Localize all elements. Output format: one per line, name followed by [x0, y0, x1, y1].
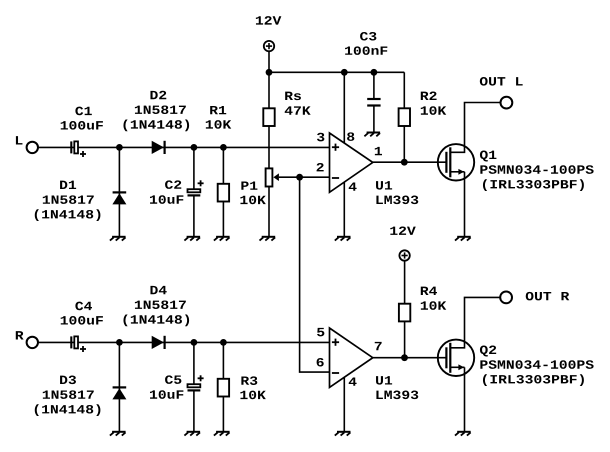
node 12V rail / Rs [266, 69, 273, 76]
pin label 2 [317, 163, 324, 171]
resistor R3 [218, 342, 229, 431]
op-amp U1b triangle [330, 328, 373, 387]
label R3 10K [240, 376, 265, 399]
pin label 5 [317, 328, 324, 336]
capacitor C4 [71, 336, 86, 352]
node R3 [220, 339, 227, 346]
terminal OUT L [501, 97, 513, 109]
mosfet Q2 source [450, 364, 464, 431]
pin label 3 [317, 133, 324, 142]
power symbol +12V (left channel) [264, 41, 274, 72]
resistor Rs [263, 72, 274, 168]
potentiometer P1 body [266, 168, 273, 236]
pin label 1 [375, 147, 382, 155]
wire 12V rail [269, 71, 404, 73]
ground P1 [260, 237, 276, 241]
resistor R1 [218, 147, 229, 236]
op-amp U1a pin 4 lead [343, 182, 345, 237]
label OUT R [526, 292, 570, 301]
label C2 10uF [150, 180, 183, 203]
label D4 1N5817 (1N4148) [123, 286, 189, 326]
ground C3 [364, 133, 380, 137]
mosfet Q1 body circle [438, 144, 474, 180]
label R input [16, 331, 24, 339]
label D2 1N5817 (1N4148) [123, 91, 189, 131]
node input/D1 [116, 144, 123, 151]
node output / R4 / gate [401, 354, 408, 361]
mosfet Q1 gate bar [445, 152, 447, 173]
op-amp U1a minus mark [332, 177, 339, 179]
ground D3 [110, 432, 126, 436]
label D3 1N5817 (1N4148) [35, 376, 101, 416]
mosfet Q2 drain [450, 297, 500, 347]
wire U1a output to gate [373, 161, 447, 163]
pin label 4 (U1b) [349, 377, 357, 385]
ground C2 [184, 237, 200, 241]
label L input [16, 136, 23, 144]
mosfet Q2 channel bar [449, 343, 451, 373]
ground Q1 source [455, 237, 471, 241]
resistor R4 [399, 304, 410, 358]
label U1 LM393 (bottom) [376, 376, 418, 399]
node R1 [220, 144, 227, 151]
ground R3 [214, 432, 230, 436]
label D1 1N5817 (1N4148) [35, 181, 101, 221]
power symbol +12V (right channel) [399, 250, 409, 303]
potentiometer P1 wiper arrow [273, 173, 279, 181]
label R4 10K [421, 287, 446, 310]
diode D4 (series) [152, 336, 165, 349]
op-amp U1b pin 4 lead [343, 377, 345, 432]
op-amp U1a triangle [330, 133, 373, 192]
label 12V supply (left channel) [256, 16, 281, 24]
ground Q2 source [455, 432, 471, 436]
node 12V rail / C3 [371, 69, 378, 76]
pin label 8 [347, 132, 354, 141]
label Rs 47K [285, 92, 311, 115]
resistor R2 [399, 72, 410, 162]
node wiper net [296, 174, 303, 181]
label Q2 PSMN034-100PS (IRL3303PBF) [480, 346, 594, 386]
terminal input L [27, 142, 38, 153]
pin label 4 (U1a) [349, 182, 357, 190]
mosfet Q1 source [450, 169, 464, 237]
capacitor C1 [71, 141, 86, 157]
diode D2 (series) [152, 141, 165, 154]
wire input L row [38, 146, 330, 148]
pin label 6 [317, 358, 324, 367]
ground U1a pin 4 [335, 237, 351, 241]
capacitor C2 [188, 147, 204, 236]
node output / R2 / gate [401, 159, 408, 166]
capacitor C3 [367, 72, 380, 132]
mosfet Q2 gate bar [445, 347, 447, 368]
diode D3 (clamp) [112, 342, 126, 431]
capacitor C5 [188, 342, 204, 431]
label OUT L [480, 77, 523, 86]
wire input R row [38, 341, 330, 343]
node C2 [191, 144, 198, 151]
wire wiper to pin 2 [279, 176, 330, 178]
op-amp U1a plus mark [332, 144, 339, 151]
wire wiper net down to pin 6 [300, 177, 330, 372]
ground D1 [110, 237, 126, 241]
mosfet Q1 channel bar [449, 147, 451, 177]
op-amp U1b plus mark [332, 339, 339, 346]
label C3 100nF [345, 32, 387, 55]
ground U1b pin 4 [335, 432, 351, 436]
label U1 LM393 (top) [376, 181, 418, 204]
mosfet Q1 drain [450, 103, 500, 153]
terminal OUT R [500, 292, 512, 304]
node input/D3 [116, 339, 123, 346]
op-amp U1b minus mark [332, 372, 339, 374]
diode D1 (clamp) [112, 147, 126, 236]
terminal input R [27, 337, 38, 348]
pin label 7 [375, 342, 382, 350]
label P1 10K [240, 181, 265, 204]
op-amp U1a pin 8 lead [343, 72, 345, 143]
node C5 [191, 339, 198, 346]
ground R1 [214, 237, 230, 241]
label C1 100uF [61, 107, 103, 130]
label 12V supply (right channel) [390, 226, 415, 234]
label R1 10K [206, 106, 231, 129]
label C4 100uF [61, 302, 103, 325]
label R2 10K [421, 92, 446, 115]
label C5 10uF [150, 375, 183, 398]
label Q1 PSMN034-100PS (IRL3303PBF) [480, 151, 594, 191]
wire U1b output to gate [373, 357, 447, 359]
mosfet Q2 body circle [438, 340, 474, 376]
node 12V rail / pin 8 [341, 69, 348, 76]
ground C5 [184, 432, 200, 436]
